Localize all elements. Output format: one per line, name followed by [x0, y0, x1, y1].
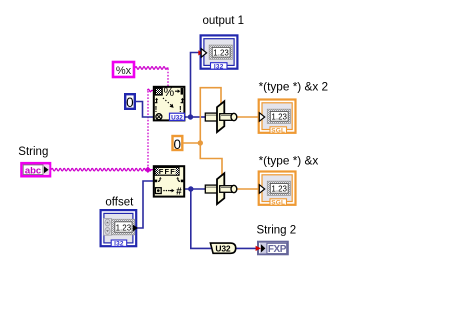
wire: Type Cast 2 to *(type *) &x indicator — [237, 188, 260, 190]
wire: String control to FFF node (horizontal string wire) — [51, 168, 153, 171]
svg-text:%: % — [163, 85, 174, 99]
wire: Type Cast 1 to *(type *) &x 2 indicator — [237, 116, 260, 118]
terminal arrow into *(type *) &x — [259, 185, 264, 194]
svg-text:U32: U32 — [171, 114, 183, 121]
wire: orange type to Type Cast 2 (down) — [200, 143, 222, 177]
svg-text:SGL: SGL — [271, 127, 285, 134]
wire: orange type to Type Cast 1 (up) — [200, 88, 221, 143]
svg-text:offset: offset — [105, 197, 134, 209]
svg-text:U32: U32 — [215, 244, 230, 254]
function: Type Cast 1 — [205, 101, 237, 132]
wire: FFF output to Type Cast 2 — [185, 188, 206, 190]
svg-text:1.23: 1.23 — [271, 113, 287, 122]
svg-text:FXP: FXP — [268, 244, 287, 255]
wire: U32 conversion to String 2 terminal — [233, 247, 257, 249]
function: Type Cast 2 — [205, 173, 237, 204]
svg-text:String 2: String 2 — [257, 225, 297, 237]
function node: Scan Value — [154, 85, 185, 121]
wire: format string %x to Scan Value node — [135, 67, 169, 87]
svg-text:%x: %x — [116, 65, 132, 77]
svg-text:abc: abc — [25, 165, 41, 176]
svg-text:*(type *) &x: *(type *) &x — [259, 154, 319, 168]
junction: orange dot — [198, 140, 203, 145]
svg-text:F: F — [159, 167, 164, 176]
svg-text:#: # — [176, 186, 182, 197]
string constant %x — [113, 62, 134, 77]
svg-text:output 1: output 1 — [203, 15, 245, 27]
wire: numeric constant 0 (orange) to junction — [184, 142, 201, 144]
numeric constant 0 (blue U32) — [125, 94, 135, 110]
svg-text:0: 0 — [174, 137, 182, 152]
svg-text:!: ! — [155, 105, 158, 114]
string control String (abc) — [22, 163, 51, 176]
indicator: *(type *) &x 2 (SGL) — [259, 100, 296, 135]
function node: Hex String To Number (FFF) — [154, 166, 184, 197]
svg-text:I32: I32 — [214, 63, 224, 70]
terminal arrow into output 1 — [198, 49, 206, 58]
wire: FFF output down to U32 conversion — [191, 189, 211, 248]
conversion bullet: To U32 — [210, 243, 235, 254]
terminal arrow into *(type *) &x 2 — [259, 113, 264, 122]
terminal arrow into String 2 — [256, 246, 261, 251]
junction: blue dot on FFF output — [188, 186, 193, 191]
svg-text:SGL: SGL — [271, 199, 285, 206]
svg-text:1.23: 1.23 — [271, 185, 287, 194]
junction: blue dot on Scan Value output — [188, 114, 193, 119]
wire: offset control to FFF node — [137, 181, 154, 228]
svg-text:String: String — [18, 146, 48, 158]
indicator: *(type *) &x (SGL) — [259, 172, 296, 207]
indicator: output 1 (I32) — [201, 35, 238, 70]
wire: numeric constant 0 (blue) to Scan Value — [136, 102, 154, 118]
svg-text:1.23: 1.23 — [213, 49, 229, 58]
control: offset (I32) — [101, 210, 138, 248]
wire: Scan Value output to Type Cast 1 — [191, 116, 207, 118]
wire: string branch up to Scan Value node — [147, 89, 153, 170]
svg-text:1.23: 1.23 — [116, 223, 132, 232]
numeric constant 0 (orange) — [173, 136, 183, 152]
svg-text:F: F — [170, 167, 175, 176]
svg-text:0: 0 — [126, 95, 134, 110]
svg-text:I32: I32 — [114, 241, 124, 248]
terminal: String 2 (FXP) — [258, 242, 288, 255]
junction: string wire junction dot — [145, 167, 152, 174]
wire: Scan Value output to output 1 indicator — [185, 53, 199, 118]
svg-text:!: ! — [179, 105, 182, 114]
svg-text:F: F — [165, 167, 170, 176]
svg-text:*(type *) &x 2: *(type *) &x 2 — [259, 80, 329, 94]
